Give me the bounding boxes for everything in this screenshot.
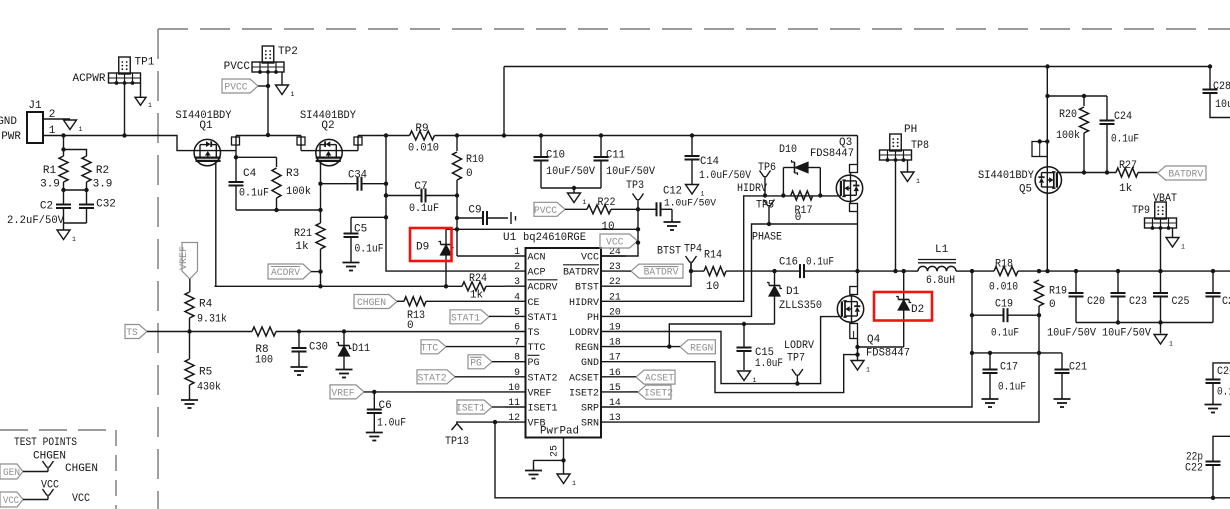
svg-text:J1: J1 [28,100,42,112]
svg-text:6.8uH: 6.8uH [926,275,955,287]
wire BTST (pin 22) [626,262,694,287]
ground D11 [336,368,353,378]
resistor R9 [408,123,439,155]
svg-text:C23: C23 [1129,296,1147,308]
test point TP6 [737,162,776,196]
wire SRN sense [626,315,1042,422]
resistor R3 [236,157,311,212]
svg-text:1: 1 [916,178,920,185]
svg-text:15: 15 [609,382,621,393]
svg-text:R19: R19 [1049,286,1067,298]
svg-text:0: 0 [795,212,802,224]
svg-text:10uF/50V 10uF/50V: 10uF/50V 10uF/50V [1047,328,1151,340]
svg-text:TEST POINTS: TEST POINTS [14,437,77,449]
svg-text:BATDRV: BATDRV [1168,169,1203,181]
net flag ACSET [626,370,676,385]
svg-text:1: 1 [79,126,83,133]
svg-text:R10: R10 [466,154,484,166]
svg-text:C25: C25 [1172,296,1190,308]
svg-text:9.31k: 9.31k [197,314,227,326]
svg-text:C14: C14 [700,156,719,168]
svg-text:SRN: SRN [581,418,599,430]
svg-text:0.1uF: 0.1uF [239,188,269,200]
resistor R22 [587,197,657,233]
ground Q4 source [851,361,870,374]
wire Q4 source to ground [850,322,860,360]
svg-text:TP5: TP5 [756,200,774,212]
svg-text:BTST: BTST [575,282,599,294]
svg-text:VCC: VCC [606,237,623,249]
test point TP4 [657,244,702,272]
capacitor C23 [1111,271,1148,322]
wire R1-R2 bottoms [64,190,87,230]
wire Q3 drain riser [850,136,858,176]
wire Q5 drain riser [1032,67,1050,168]
resistor R24 [462,273,487,302]
wire L1 out / battery rail [970,269,1230,273]
svg-text:U1: U1 [503,232,517,244]
test point TP8 PH [880,124,930,271]
svg-text:1.0uF/50V: 1.0uF/50V [664,198,717,210]
ground C15 [738,371,757,384]
svg-text:7: 7 [514,337,520,348]
svg-text:C22: C22 [1185,463,1203,475]
svg-text:ACDRV: ACDRV [271,267,301,279]
svg-text:SRP: SRP [581,403,599,415]
ground C17 [982,397,999,407]
svg-text:0.1uF: 0.1uF [806,257,834,269]
wire Q1 drain riser [221,136,240,160]
svg-text:12: 12 [508,412,520,423]
IC U1 bq24610RGE [503,232,626,438]
svg-text:22: 22 [609,276,621,287]
svg-text:CHGEN: CHGEN [65,463,98,475]
svg-text:VCC: VCC [72,493,90,505]
capacitor C10 [534,136,596,189]
svg-text:1: 1 [572,480,576,487]
svg-text:C24: C24 [1114,111,1132,123]
resistor R17 [791,191,813,224]
transistor Q4 FDS8447 [837,296,910,360]
transistor Q3 FDS8447 [810,137,863,202]
wire mid rail Q1-Q2 (PVCC) [236,135,301,137]
inductor L1 6.8uH [914,244,973,287]
svg-text:STAT1: STAT1 [528,312,558,324]
svg-text:TS: TS [528,327,540,339]
test point TP7 [784,340,814,384]
svg-text:R20: R20 [1059,109,1077,121]
svg-text:1: 1 [1169,341,1173,348]
svg-text:STAT2: STAT2 [528,372,558,384]
svg-text:TS: TS [126,327,138,339]
svg-text:ZLLS350: ZLLS350 [779,300,822,312]
svg-text:VREF: VREF [528,387,552,399]
resistor R27 [1116,160,1158,195]
svg-text:ISET1: ISET1 [456,403,485,415]
resistor R21 [294,210,325,288]
svg-text:C11: C11 [606,150,625,162]
highlight box D9 [410,228,452,261]
ground TP8 [901,172,920,185]
net flag VCC [600,234,640,249]
svg-text:TP4: TP4 [684,244,702,256]
svg-text:TP13: TP13 [445,436,469,448]
svg-text:R1: R1 [43,165,57,177]
svg-text:TTC: TTC [421,342,438,354]
svg-text:19: 19 [609,322,621,333]
capacitor C12 [657,186,717,222]
capacitor C32 [79,182,116,223]
svg-text:VCC: VCC [581,252,599,264]
svg-text:PG: PG [470,357,482,369]
svg-text:10uF/50V: 10uF/50V [606,166,655,178]
resistor R10 [453,136,485,196]
svg-text:REGN: REGN [690,342,713,354]
svg-text:10: 10 [601,221,614,233]
highlight box D2 [874,292,932,321]
svg-text:R9: R9 [415,123,428,135]
svg-text:C28: C28 [1213,81,1230,93]
diode D9 [416,229,454,288]
ground C6 [366,431,383,441]
ground C21 [1054,397,1071,407]
svg-text:9: 9 [514,367,520,378]
svg-text:C7: C7 [414,181,427,193]
svg-text:14: 14 [609,397,621,408]
ground R5 [181,398,198,408]
svg-text:C19: C19 [995,299,1013,311]
wire Q1 gate to ACDRV [215,166,217,287]
svg-text:ACP: ACP [528,267,546,279]
capacitor C15 [737,324,784,370]
svg-text:100: 100 [255,355,273,367]
svg-text:25: 25 [550,445,561,457]
resistor R20 [1056,94,1089,173]
svg-text:Q4: Q4 [867,334,881,346]
test point TP3 [626,180,644,212]
svg-text:CE: CE [528,297,540,309]
svg-text:Q2: Q2 [321,120,334,132]
diode D10 [779,144,820,196]
capacitor C6 [367,392,406,431]
capacitor C9 [455,205,516,226]
svg-text:TP2: TP2 [278,46,298,58]
svg-text:1: 1 [583,199,587,206]
svg-text:VCC: VCC [41,480,59,492]
wire top distribution (y=66) [504,64,1212,135]
svg-text:C21: C21 [1069,362,1087,374]
svg-text:16: 16 [609,367,621,378]
svg-text:1: 1 [866,367,870,374]
net flag ACDRV [268,264,321,279]
wire LODRV (pin 19) [626,317,842,386]
capacitor C11 [594,136,656,189]
ground C5 [343,261,360,271]
resistor R5 [185,332,221,400]
wire output caps bottom [1047,320,1213,339]
svg-text:PVCC: PVCC [534,205,557,217]
svg-text:GND: GND [581,357,599,369]
svg-text:23: 23 [609,261,621,272]
ground TP1 [135,97,152,109]
capacitor C22 22p [1185,436,1230,498]
svg-text:HIDRV: HIDRV [737,183,767,195]
wire Q5 source to rail [1046,193,1048,271]
svg-text:R24: R24 [469,273,487,285]
net flag VCC (legend) [0,492,48,507]
svg-text:0.1uF: 0.1uF [355,244,384,256]
svg-text:0.1uF: 0.1uF [998,382,1026,394]
svg-text:10uF/50V: 10uF/50V [1215,99,1230,111]
svg-text:0.010: 0.010 [989,282,1018,294]
svg-text:3.9: 3.9 [93,179,113,191]
capacitor C4 [229,157,270,210]
resistor R8 [252,327,505,367]
svg-text:18: 18 [609,337,621,348]
capacitor C5 [344,217,387,260]
svg-text:10uF/50V: 10uF/50V [546,166,595,178]
svg-text:R27: R27 [1119,160,1137,172]
svg-text:R14: R14 [704,250,722,262]
svg-text:1k: 1k [470,290,484,302]
ground output caps [1154,335,1173,348]
ground PwrPad triangle [557,474,576,487]
wire SRP sense [626,271,975,407]
svg-text:0.1uF: 0.1uF [409,203,439,215]
wire adapter rail [358,133,858,137]
net flag TTC [421,340,505,355]
svg-text:VBAT: VBAT [1153,193,1177,205]
wire switch node L1 input [855,269,913,273]
svg-text:C9: C9 [468,205,481,217]
svg-text:C4: C4 [243,168,257,180]
svg-text:1: 1 [1181,244,1185,251]
svg-text:11: 11 [508,397,520,408]
capacitor C14 [685,136,752,185]
svg-text:1.0uF: 1.0uF [755,358,783,370]
IC U1 power pad pin 25 [534,438,566,475]
net flag TS [125,325,252,340]
wire input rail J1 pin1 to Q1 [43,133,194,150]
ground C26 [1205,403,1222,413]
connector J1 [0,100,56,143]
svg-text:D2: D2 [911,304,924,316]
svg-text:PWR: PWR [1,131,21,143]
net flag BATDRV (pin23) [626,264,684,279]
svg-text:2: 2 [514,261,520,272]
capacitor C26 [1206,363,1230,403]
svg-text:1k: 1k [1119,183,1133,195]
capacitor C2 [7,182,71,227]
capacitor C27 [1206,271,1230,322]
svg-text:BATDRV: BATDRV [563,267,600,279]
net flag VREF vertical [178,243,198,293]
svg-text:C34: C34 [348,170,367,182]
svg-text:0: 0 [466,168,473,180]
svg-text:C20: C20 [1087,296,1105,308]
svg-text:TP3: TP3 [626,180,644,192]
svg-text:ISET2: ISET2 [569,387,599,399]
svg-text:TP6: TP6 [758,162,776,174]
ground input filter [57,230,76,243]
test point TP5 [756,200,775,227]
transistor Q1 SI4401BDY [176,110,232,166]
transistor Q2 SI4401BDY [300,110,356,166]
svg-text:BTST: BTST [657,246,681,258]
svg-text:430k: 430k [197,382,221,394]
capacitor C25 [1153,271,1190,322]
ground C30 [291,365,308,375]
svg-text:HIDRV: HIDRV [569,297,600,309]
svg-text:1k: 1k [295,241,309,253]
wire ACP sense branch [384,136,505,272]
capacitor C19 [972,299,1041,340]
wire Q5 gate network [1057,170,1116,174]
net flag STAT2 [417,370,505,385]
wire C4/R3 bottom to Q2 gate node [236,208,323,212]
svg-text:1: 1 [701,191,705,198]
svg-text:R21: R21 [294,228,312,240]
net flag CHGEN [354,295,404,310]
svg-text:ACN: ACN [528,252,546,264]
svg-text:STAT2: STAT2 [418,372,447,384]
svg-text:CHGEN: CHGEN [33,451,66,463]
svg-text:R5: R5 [199,367,212,379]
svg-text:1: 1 [291,91,295,98]
resistor R18 [989,259,1018,294]
wire VCC net (to pin 24) [446,196,640,257]
wire Q2 right lead riser to rail [342,136,362,151]
net flag REGN [626,340,716,355]
diode D2 [858,271,925,347]
svg-text:TP9: TP9 [1132,205,1150,217]
svg-text:C12: C12 [663,186,682,198]
resistor R13 [404,297,505,332]
wire Q3 source to PHASE [850,201,858,271]
net flag PVCC [222,79,268,94]
svg-text:D11: D11 [352,343,370,355]
ground C10/C11 [568,193,587,206]
net flag BATDRV (Q5 gate) [1158,166,1207,181]
wire Q4 drain riser [850,271,858,296]
svg-text:1: 1 [72,236,76,243]
svg-text:C16: C16 [779,257,798,269]
capacitor C34 [321,170,389,191]
net flag ISET1 [456,400,505,415]
svg-text:0: 0 [1049,299,1056,311]
ground PwrPad bar [525,469,542,479]
capacitor C30 [292,329,329,365]
svg-text:PVCC: PVCC [224,82,247,94]
capacitor C28 [1203,67,1230,118]
wire TP3 to VCC pin [637,209,639,229]
svg-text:TP1: TP1 [135,57,155,69]
wire ACDRV net (pin 3) [215,285,506,287]
svg-text:ACDRV: ACDRV [528,282,559,294]
svg-text:BATDRV: BATDRV [644,267,679,279]
svg-text:CHGEN: CHGEN [357,297,386,309]
svg-text:13: 13 [609,412,621,423]
diode D11 [337,329,371,368]
test point TP13 [445,420,505,448]
svg-text:1: 1 [514,246,520,257]
capacitor C7 [384,181,459,215]
svg-text:Q1: Q1 [199,120,213,132]
net flag PVCC (VCC filter) [534,202,587,217]
svg-text:PH: PH [587,312,599,324]
svg-text:STAT1: STAT1 [451,312,480,324]
svg-text:VREF: VREF [331,387,354,399]
svg-text:TTC: TTC [528,342,546,354]
svg-text:1: 1 [148,102,152,109]
wire J1 pin2 to ground [43,118,70,120]
svg-text:VREF: VREF [178,246,190,270]
resistor R4 [185,292,227,334]
svg-text:PVCC: PVCC [224,61,251,73]
svg-text:1.0uF: 1.0uF [377,418,406,430]
svg-text:Q5: Q5 [1019,184,1032,196]
svg-text:100k: 100k [286,186,311,198]
svg-text:6: 6 [514,322,520,333]
svg-text:C6: C6 [379,400,392,412]
svg-text:C27: C27 [1222,296,1230,308]
svg-text:17: 17 [609,352,621,363]
net flag ISET2 [626,385,674,400]
capacitor C16 [779,257,858,279]
svg-text:PwrPad: PwrPad [540,426,579,438]
svg-text:C5: C5 [354,224,367,236]
wire C10/C11 gnd [541,186,601,193]
svg-text:0.1uF: 0.1uF [991,328,1019,340]
ground TP9 [1166,238,1185,251]
transistor Q5 SI4401BDY [978,167,1062,196]
resistor R1 [40,136,68,191]
ground C12 [664,220,681,230]
svg-text:ACSET: ACSET [645,373,674,385]
ground TP2 [276,85,295,98]
svg-text:GND: GND [0,116,17,128]
wire VFB sense (bottom) [495,422,1230,500]
svg-text:TP7: TP7 [787,353,805,365]
svg-text:ACSET: ACSET [569,372,599,384]
svg-text:GEN: GEN [3,467,20,479]
svg-text:D9: D9 [416,242,429,254]
svg-text:FDS8447: FDS8447 [810,148,854,160]
svg-text:C30: C30 [309,342,328,354]
svg-text:ACPWR: ACPWR [72,73,105,85]
svg-text:FDS8447: FDS8447 [866,348,910,360]
wire REGN to bootstrap [669,322,774,347]
capacitor C21 [1055,353,1088,398]
svg-text:D10: D10 [779,144,797,156]
svg-text:100k: 100k [1056,130,1080,142]
svg-text:R2: R2 [96,165,109,177]
ground J1 pin2 [64,120,83,133]
svg-text:0: 0 [407,320,414,332]
resistor R2 [64,150,113,191]
net flag CHGEN (legend) [0,464,48,479]
svg-text:D1: D1 [786,286,800,298]
test point CHGEN legend [33,451,98,476]
dashed TEST POINTS box [0,430,116,509]
svg-text:LODRV: LODRV [569,327,600,339]
svg-text:SI4401BDY: SI4401BDY [978,170,1034,182]
svg-text:C17: C17 [1000,362,1018,374]
net flag STAT1 [450,310,505,325]
svg-text:10: 10 [508,382,520,393]
svg-text:8: 8 [514,352,520,363]
svg-text:TP8: TP8 [911,140,929,152]
